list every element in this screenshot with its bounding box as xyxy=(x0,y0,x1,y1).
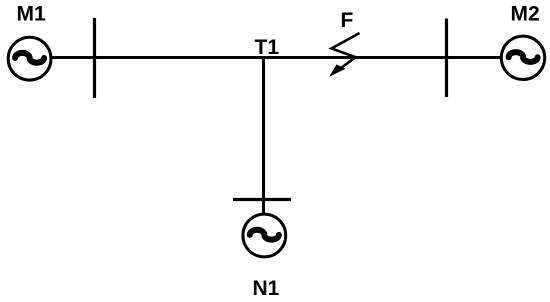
svg-text:M1: M1 xyxy=(17,3,46,26)
fault arrow head xyxy=(331,65,345,76)
svg-text:T1: T1 xyxy=(255,36,280,59)
svg-text:F: F xyxy=(341,9,354,32)
source M1 circle xyxy=(8,37,51,80)
source M1 sine wave xyxy=(15,53,44,63)
wire vertical line T1 to N1 xyxy=(262,58,265,222)
fault arrow lightning bolt xyxy=(332,33,360,70)
source M2 sine wave xyxy=(509,52,538,62)
bus bar right xyxy=(445,19,448,98)
bus bar left xyxy=(93,18,96,98)
source N1 circle xyxy=(243,214,286,257)
wire main horizontal line M1 to M2 xyxy=(50,56,502,59)
svg-text:N1: N1 xyxy=(253,277,280,300)
source N1 sine wave xyxy=(250,230,279,240)
svg-text:M2: M2 xyxy=(511,3,540,26)
bus bar bottom xyxy=(233,198,291,201)
source M2 circle xyxy=(501,36,544,79)
